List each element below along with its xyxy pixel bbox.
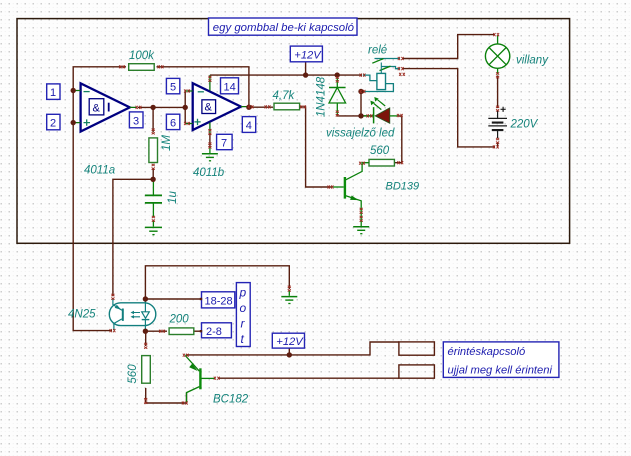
resistor 4,7k bbox=[273, 90, 300, 110]
svg-text:1: 1 bbox=[50, 87, 56, 99]
svg-text:egy gombbal be-ki kapcsoló: egy gombbal be-ki kapcsoló bbox=[213, 22, 354, 34]
NAND gate U2 4011b bbox=[185, 75, 248, 179]
svg-text:560: 560 bbox=[127, 364, 139, 384]
wire 200 to 2-8 box bbox=[194, 330, 202, 332]
junction 4N25 collector node bbox=[143, 296, 148, 301]
note box érintéskapcsoló bbox=[443, 342, 559, 378]
wire 560b to BC182 collector bbox=[146, 388, 187, 403]
wire coil pin to diode junction bbox=[337, 74, 362, 76]
pin box 7 bbox=[217, 134, 233, 149]
pin connection x-marks bbox=[110, 33, 500, 405]
junction LED anode node bbox=[358, 113, 363, 118]
wire BC182 base to pad2 bbox=[218, 377, 399, 379]
pin box 6 bbox=[166, 114, 179, 129]
wire 4.7k to BD139 base bbox=[300, 107, 332, 187]
svg-text:+12V: +12V bbox=[276, 336, 304, 348]
svg-text:p: p bbox=[239, 286, 247, 300]
svg-text:2: 2 bbox=[50, 118, 56, 130]
svg-text:4011a: 4011a bbox=[84, 165, 115, 177]
junction gate2 inputs node bbox=[183, 105, 188, 110]
svg-text:14: 14 bbox=[224, 82, 236, 94]
relay K1 bbox=[362, 45, 400, 92]
pin box 2 bbox=[47, 114, 60, 130]
frame border bbox=[17, 19, 570, 244]
wire gate1 out to gate2 in bbox=[138, 91, 185, 124]
resistor R 100k bbox=[129, 50, 155, 70]
svg-text:villany: villany bbox=[516, 55, 549, 67]
svg-text:+12V: +12V bbox=[294, 49, 322, 61]
wire down to 560 bottom bbox=[145, 331, 147, 346]
svg-text:o: o bbox=[240, 301, 247, 315]
+12V top stub bbox=[305, 62, 307, 75]
wire relay contact2 to battery bottom bbox=[402, 69, 495, 147]
diode D1 1N4148 bbox=[316, 75, 346, 117]
op-amp style NAND gate U1 4011a bbox=[73, 83, 137, 176]
junction diode/+12V node bbox=[335, 72, 340, 77]
svg-text:560: 560 bbox=[370, 145, 390, 157]
wire 1M top bbox=[152, 107, 154, 132]
svg-text:6: 6 bbox=[170, 118, 176, 130]
svg-text:érintéskapcsoló: érintéskapcsoló bbox=[448, 346, 526, 358]
touch pad 1 bbox=[399, 342, 435, 355]
optocoupler U3 4N25 bbox=[68, 299, 156, 331]
svg-text:&: & bbox=[205, 102, 213, 114]
title box bbox=[209, 18, 358, 35]
junction gate1 input B bbox=[71, 120, 76, 125]
svg-text:100k: 100k bbox=[129, 50, 155, 62]
wire 100k right to gate2 output bbox=[157, 67, 249, 107]
wire 4N25 emitter row to 200 bbox=[145, 330, 167, 332]
svg-text:4: 4 bbox=[246, 120, 252, 132]
wire +12V bottom rail bbox=[186, 342, 399, 355]
transistor Q1 BD139 bbox=[333, 163, 419, 226]
port label box bbox=[236, 283, 250, 347]
svg-text:relé: relé bbox=[368, 45, 387, 57]
svg-text:200: 200 bbox=[169, 314, 190, 326]
svg-text:1u: 1u bbox=[167, 191, 179, 204]
wire 4N25 collector to port-gnd bbox=[145, 266, 289, 299]
port box 2-8 bbox=[200, 323, 232, 338]
indicator LED vissajelző bbox=[326, 97, 399, 140]
svg-text:4,7k: 4,7k bbox=[273, 90, 296, 102]
pin box 5 bbox=[166, 78, 179, 93]
junction 1M/1u node bbox=[150, 177, 155, 182]
+12V bottom label bbox=[272, 333, 304, 348]
wire LED anode bbox=[361, 115, 373, 117]
junction gate1 output node bbox=[150, 105, 155, 110]
svg-text:4011b: 4011b bbox=[193, 167, 225, 179]
svg-text:7: 7 bbox=[221, 138, 227, 150]
wire 1M junction to 4N25 top-left bbox=[113, 179, 153, 296]
wire 4N25 to 18-28 box bbox=[145, 298, 201, 300]
pin box 14 bbox=[221, 78, 239, 94]
pin box 1 bbox=[47, 84, 60, 100]
wire diode to LED row bbox=[337, 92, 361, 116]
svg-text:ujjal meg kell érinteni: ujjal meg kell érinteni bbox=[448, 365, 553, 377]
svg-text:BC182: BC182 bbox=[213, 394, 249, 406]
capacitor 1u bbox=[145, 179, 179, 226]
wire lamp to battery top bbox=[497, 76, 499, 109]
wire 1M bottom bbox=[152, 168, 154, 179]
resistor 1M bbox=[149, 135, 173, 163]
resistor 200 bbox=[169, 314, 194, 335]
port box 18-28 bbox=[200, 292, 235, 308]
resistor 560 top bbox=[369, 145, 394, 166]
lamp villany bbox=[485, 35, 549, 75]
touch pad 2 bbox=[399, 365, 435, 378]
svg-text:220V: 220V bbox=[510, 119, 539, 131]
+12V top label bbox=[290, 46, 322, 62]
wire relay contact1 to lamp bbox=[402, 35, 495, 59]
ground under gate2 pin7 bbox=[202, 147, 218, 161]
junction +12V rail node bbox=[303, 72, 308, 77]
svg-text:18-28: 18-28 bbox=[205, 296, 233, 308]
pin box 4 bbox=[242, 117, 255, 133]
ground under BD139 bbox=[353, 227, 369, 234]
svg-text:5: 5 bbox=[170, 82, 176, 94]
ground under 1u bbox=[145, 227, 162, 234]
wire battery bottom stub bbox=[497, 142, 499, 147]
resistor 560 bottom bbox=[127, 356, 150, 384]
wire gate2 out to 4.7k bbox=[250, 106, 273, 108]
svg-text:BD139: BD139 bbox=[386, 181, 420, 193]
svg-text:2-8: 2-8 bbox=[206, 326, 222, 338]
wire +12V rail to pin14 and diode bbox=[210, 74, 337, 76]
svg-text:1M: 1M bbox=[161, 135, 173, 151]
svg-text:4N25: 4N25 bbox=[68, 309, 96, 321]
wire net from 100k left down to 4N25 bbox=[73, 67, 126, 331]
junction relay coil pin2 node bbox=[358, 89, 363, 94]
wire pin7 to gnd bbox=[209, 134, 211, 147]
svg-text:3: 3 bbox=[133, 116, 139, 128]
wire LED cathode to 560 bbox=[395, 116, 402, 163]
svg-text:1N4148: 1N4148 bbox=[316, 76, 328, 117]
junction gate2 output node bbox=[246, 105, 251, 110]
junction +12V bottom node bbox=[287, 352, 292, 357]
pin box 3 bbox=[129, 112, 143, 128]
battery 220V bbox=[488, 107, 538, 138]
svg-text:vissajelző led: vissajelző led bbox=[326, 128, 395, 140]
svg-text:&: & bbox=[93, 103, 101, 115]
transistor Q2 BC182 bbox=[186, 355, 249, 406]
junction gate1 input A bbox=[71, 88, 76, 93]
junction 4N25 emitter node bbox=[143, 329, 148, 334]
ground near port bbox=[281, 290, 297, 304]
